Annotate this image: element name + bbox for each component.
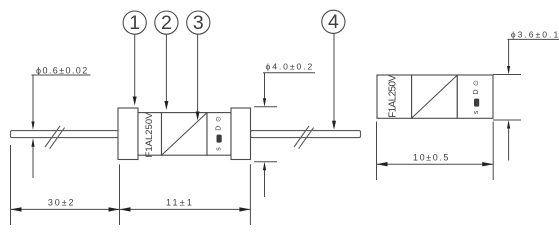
- dim phi3.6 arrows: [507, 66, 510, 75]
- svg-text:s: s: [473, 110, 480, 114]
- svg-text:30±2: 30±2: [48, 197, 76, 207]
- left end cap: [118, 108, 138, 160]
- dim phi4.0 arrows: [263, 98, 266, 107]
- dim phi4.0 leader: [254, 73, 315, 197]
- balloon 4: [322, 10, 345, 130]
- dim 11+-1: [120, 164, 251, 225]
- svg-text:ϕ4.0±0.2: ϕ4.0±0.2: [266, 62, 315, 72]
- right end cap: [231, 108, 251, 160]
- lead wire right: [251, 131, 361, 138]
- svg-text:D: D: [473, 89, 480, 94]
- wire break right: [294, 126, 314, 149]
- dim phi0.6 leader: [32, 75, 91, 178]
- svg-text:10±0.5: 10±0.5: [413, 152, 450, 162]
- wire break left: [45, 126, 65, 149]
- svg-text:⊙: ⊙: [216, 116, 223, 122]
- dim phi0.6 arrows: [31, 122, 34, 131]
- svg-text:3: 3: [193, 12, 204, 34]
- dim 10+-0.5: [377, 122, 494, 181]
- right view certification marks: [473, 80, 480, 114]
- right view glass tube: [412, 75, 458, 118]
- right view body: marking band: [377, 75, 412, 118]
- certification band: [207, 113, 231, 156]
- fuse element: [162, 113, 207, 155]
- svg-text:D: D: [216, 126, 223, 131]
- glass tube: [162, 113, 208, 156]
- dim 30+-2: [11, 145, 120, 225]
- svg-text:1: 1: [129, 12, 140, 34]
- certification marks: [216, 116, 223, 151]
- svg-text:F1AL250V: F1AL250V: [144, 112, 155, 158]
- balloon 3: [187, 11, 210, 121]
- svg-text:⊙: ⊙: [473, 80, 480, 86]
- dim phi3.6 leader: [493, 39, 559, 160]
- svg-text:11±1: 11±1: [166, 197, 194, 207]
- svg-text:ϕ0.6±0.02: ϕ0.6±0.02: [36, 65, 89, 75]
- svg-text:s: s: [216, 147, 223, 151]
- svg-text:ϕ3.6±0.1: ϕ3.6±0.1: [511, 29, 559, 39]
- right view certification band: [457, 75, 493, 118]
- balloon 1: [123, 11, 146, 106]
- lead wire left: [11, 131, 119, 138]
- marking band: [138, 113, 162, 156]
- balloon 2: [155, 11, 178, 110]
- right view fuse element: [412, 75, 457, 117]
- svg-text:F1AL250V: F1AL250V: [388, 75, 399, 118]
- svg-text:4: 4: [328, 11, 339, 33]
- svg-text:2: 2: [161, 12, 172, 34]
